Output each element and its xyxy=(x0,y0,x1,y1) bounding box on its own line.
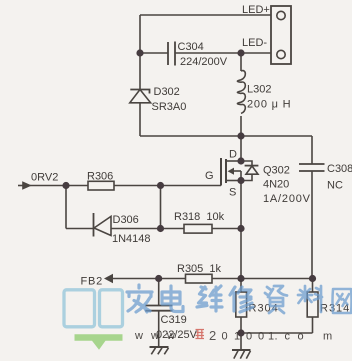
svg-text:022/25V: 022/25V xyxy=(156,329,198,341)
wire bottom row R314 to R304 xyxy=(241,332,313,334)
wire drain stub down xyxy=(240,136,242,161)
ground below R304 xyxy=(232,333,251,359)
wire R306 to gate xyxy=(114,185,221,187)
ground below C319 xyxy=(150,347,169,354)
wire Q302 source down main line xyxy=(240,181,242,293)
body diode of Q302 xyxy=(241,161,258,181)
node C308-R314 xyxy=(309,275,316,282)
svg-text:R318 10k: R318 10k xyxy=(174,211,225,223)
wire LED- stub xyxy=(241,52,271,54)
svg-text:224/200V: 224/200V xyxy=(180,56,228,68)
wire drain node row xyxy=(140,135,312,137)
svg-text:FB2: FB2 xyxy=(81,276,104,288)
svg-text:R305 1k: R305 1k xyxy=(177,263,222,275)
char jia xyxy=(127,285,152,312)
svg-text:C319: C319 xyxy=(161,314,187,326)
wire top horizontal xyxy=(140,14,271,16)
resistor R304 xyxy=(236,292,247,317)
svg-text:Q302: Q302 xyxy=(263,165,290,177)
wire ORV2 to R306 xyxy=(30,185,88,187)
char liao xyxy=(298,286,322,312)
svg-text:1N4148: 1N4148 xyxy=(112,233,151,245)
char dian xyxy=(162,286,183,312)
logo book ribbon xyxy=(75,334,123,350)
svg-text:2: 2 xyxy=(209,328,216,343)
char xiu xyxy=(230,287,253,312)
resistor R314 xyxy=(307,292,318,317)
node R318 right xyxy=(237,225,244,232)
logo book icon xyxy=(64,290,123,327)
node R304 bottom xyxy=(237,329,244,336)
wire C304 row right xyxy=(175,52,241,54)
wire left vertical (D302 to drain row) xyxy=(139,103,141,136)
svg-text:www: www xyxy=(134,330,175,342)
wire R304 bottom xyxy=(240,317,242,333)
svg-text:NC: NC xyxy=(327,180,343,192)
capacitor C319 xyxy=(145,279,172,348)
char wang xyxy=(333,289,352,313)
node drain row xyxy=(237,132,244,139)
node ORV2 xyxy=(62,182,69,189)
watermark text gray www xyxy=(134,330,332,343)
transistor Q302 xyxy=(221,158,241,186)
watermark xyxy=(64,285,352,350)
node drain xyxy=(237,157,244,164)
wire FB2 row xyxy=(112,278,186,280)
wire branch R306 node down xyxy=(160,186,162,229)
svg-text:D306: D306 xyxy=(113,214,139,226)
node FB2-C319 xyxy=(155,275,162,282)
svg-text:SR3A0: SR3A0 xyxy=(152,101,187,113)
wire to D306 cathode xyxy=(66,228,94,230)
node source xyxy=(237,177,244,184)
char zi xyxy=(265,286,287,313)
wire C304 row left xyxy=(140,52,168,54)
svg-text:S: S xyxy=(229,187,236,199)
node R305 right xyxy=(237,275,244,282)
inductor L302 xyxy=(237,71,245,114)
svg-text:0RV2: 0RV2 xyxy=(31,172,58,184)
node C304 left xyxy=(136,49,143,56)
wire D306 anode to node xyxy=(111,228,184,230)
svg-text:R306: R306 xyxy=(87,171,113,183)
svg-text:1A/200V: 1A/200V xyxy=(263,193,311,205)
resistor R306 xyxy=(88,181,114,190)
wire left vertical (top to D302) xyxy=(139,15,141,89)
svg-text:C304: C304 xyxy=(178,41,204,53)
diode D306 1N4148 xyxy=(94,213,112,237)
wire R318 to main line xyxy=(212,228,241,230)
capacitor C304 xyxy=(168,42,175,66)
input arrow ORV2 xyxy=(18,181,32,190)
svg-text:200 μ H: 200 μ H xyxy=(247,99,291,111)
capacitor C308 xyxy=(299,136,325,279)
svg-text:D: D xyxy=(229,149,237,161)
node LED- xyxy=(237,49,244,56)
svg-text:LED+: LED+ xyxy=(242,4,270,16)
node D306-R318 xyxy=(157,225,164,232)
node gate branch xyxy=(157,182,164,189)
wire L302 top lead xyxy=(240,53,242,71)
svg-text:4N20: 4N20 xyxy=(263,179,289,191)
wire L302 bottom lead xyxy=(240,116,242,136)
svg-text:D302: D302 xyxy=(154,86,180,98)
output arrow FB2 xyxy=(104,274,113,284)
wire branch down to D306 row xyxy=(65,186,67,229)
wire R305 to right xyxy=(212,278,312,280)
diode D302 SR3A0 xyxy=(130,90,151,103)
char wei xyxy=(197,286,222,311)
svg-text:G: G xyxy=(205,170,214,182)
watermark red chars xyxy=(196,328,217,343)
resistor R318 xyxy=(184,224,212,233)
svg-text:LED-: LED- xyxy=(242,37,267,49)
wire R314 leads xyxy=(312,279,314,334)
svg-text:C308: C308 xyxy=(327,163,352,175)
svg-text:L302: L302 xyxy=(247,84,271,96)
connector J (LED) xyxy=(271,6,291,64)
resistor R305 xyxy=(186,274,213,283)
watermark text blue xyxy=(127,285,352,313)
